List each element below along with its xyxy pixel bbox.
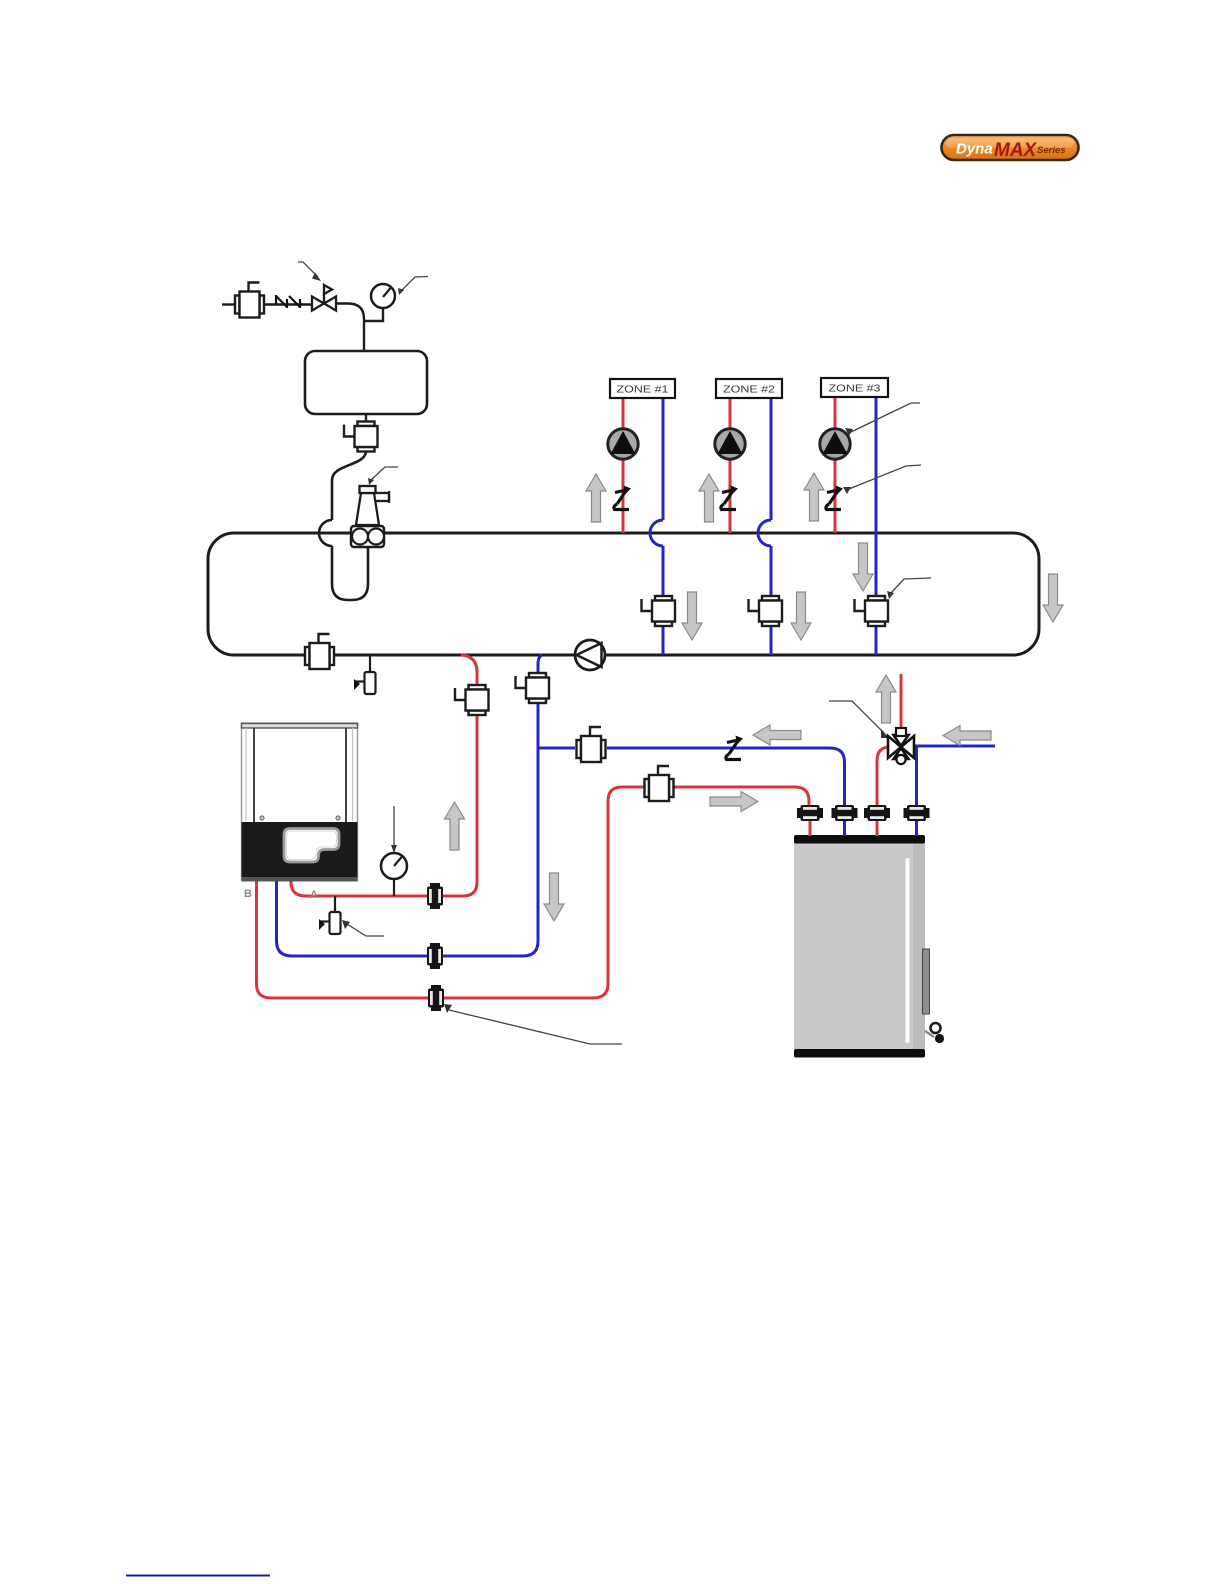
svg-text:B: B: [244, 888, 252, 900]
svg-text:Series: Series: [1037, 145, 1066, 156]
svg-text:A: A: [310, 889, 318, 901]
svg-text:ZONE #2: ZONE #2: [723, 384, 775, 396]
svg-text:ZONE #3: ZONE #3: [829, 383, 881, 395]
svg-text:ZONE #1: ZONE #1: [617, 384, 669, 396]
svg-text:Dyna: Dyna: [956, 141, 993, 158]
svg-text:MAX: MAX: [994, 140, 1038, 161]
